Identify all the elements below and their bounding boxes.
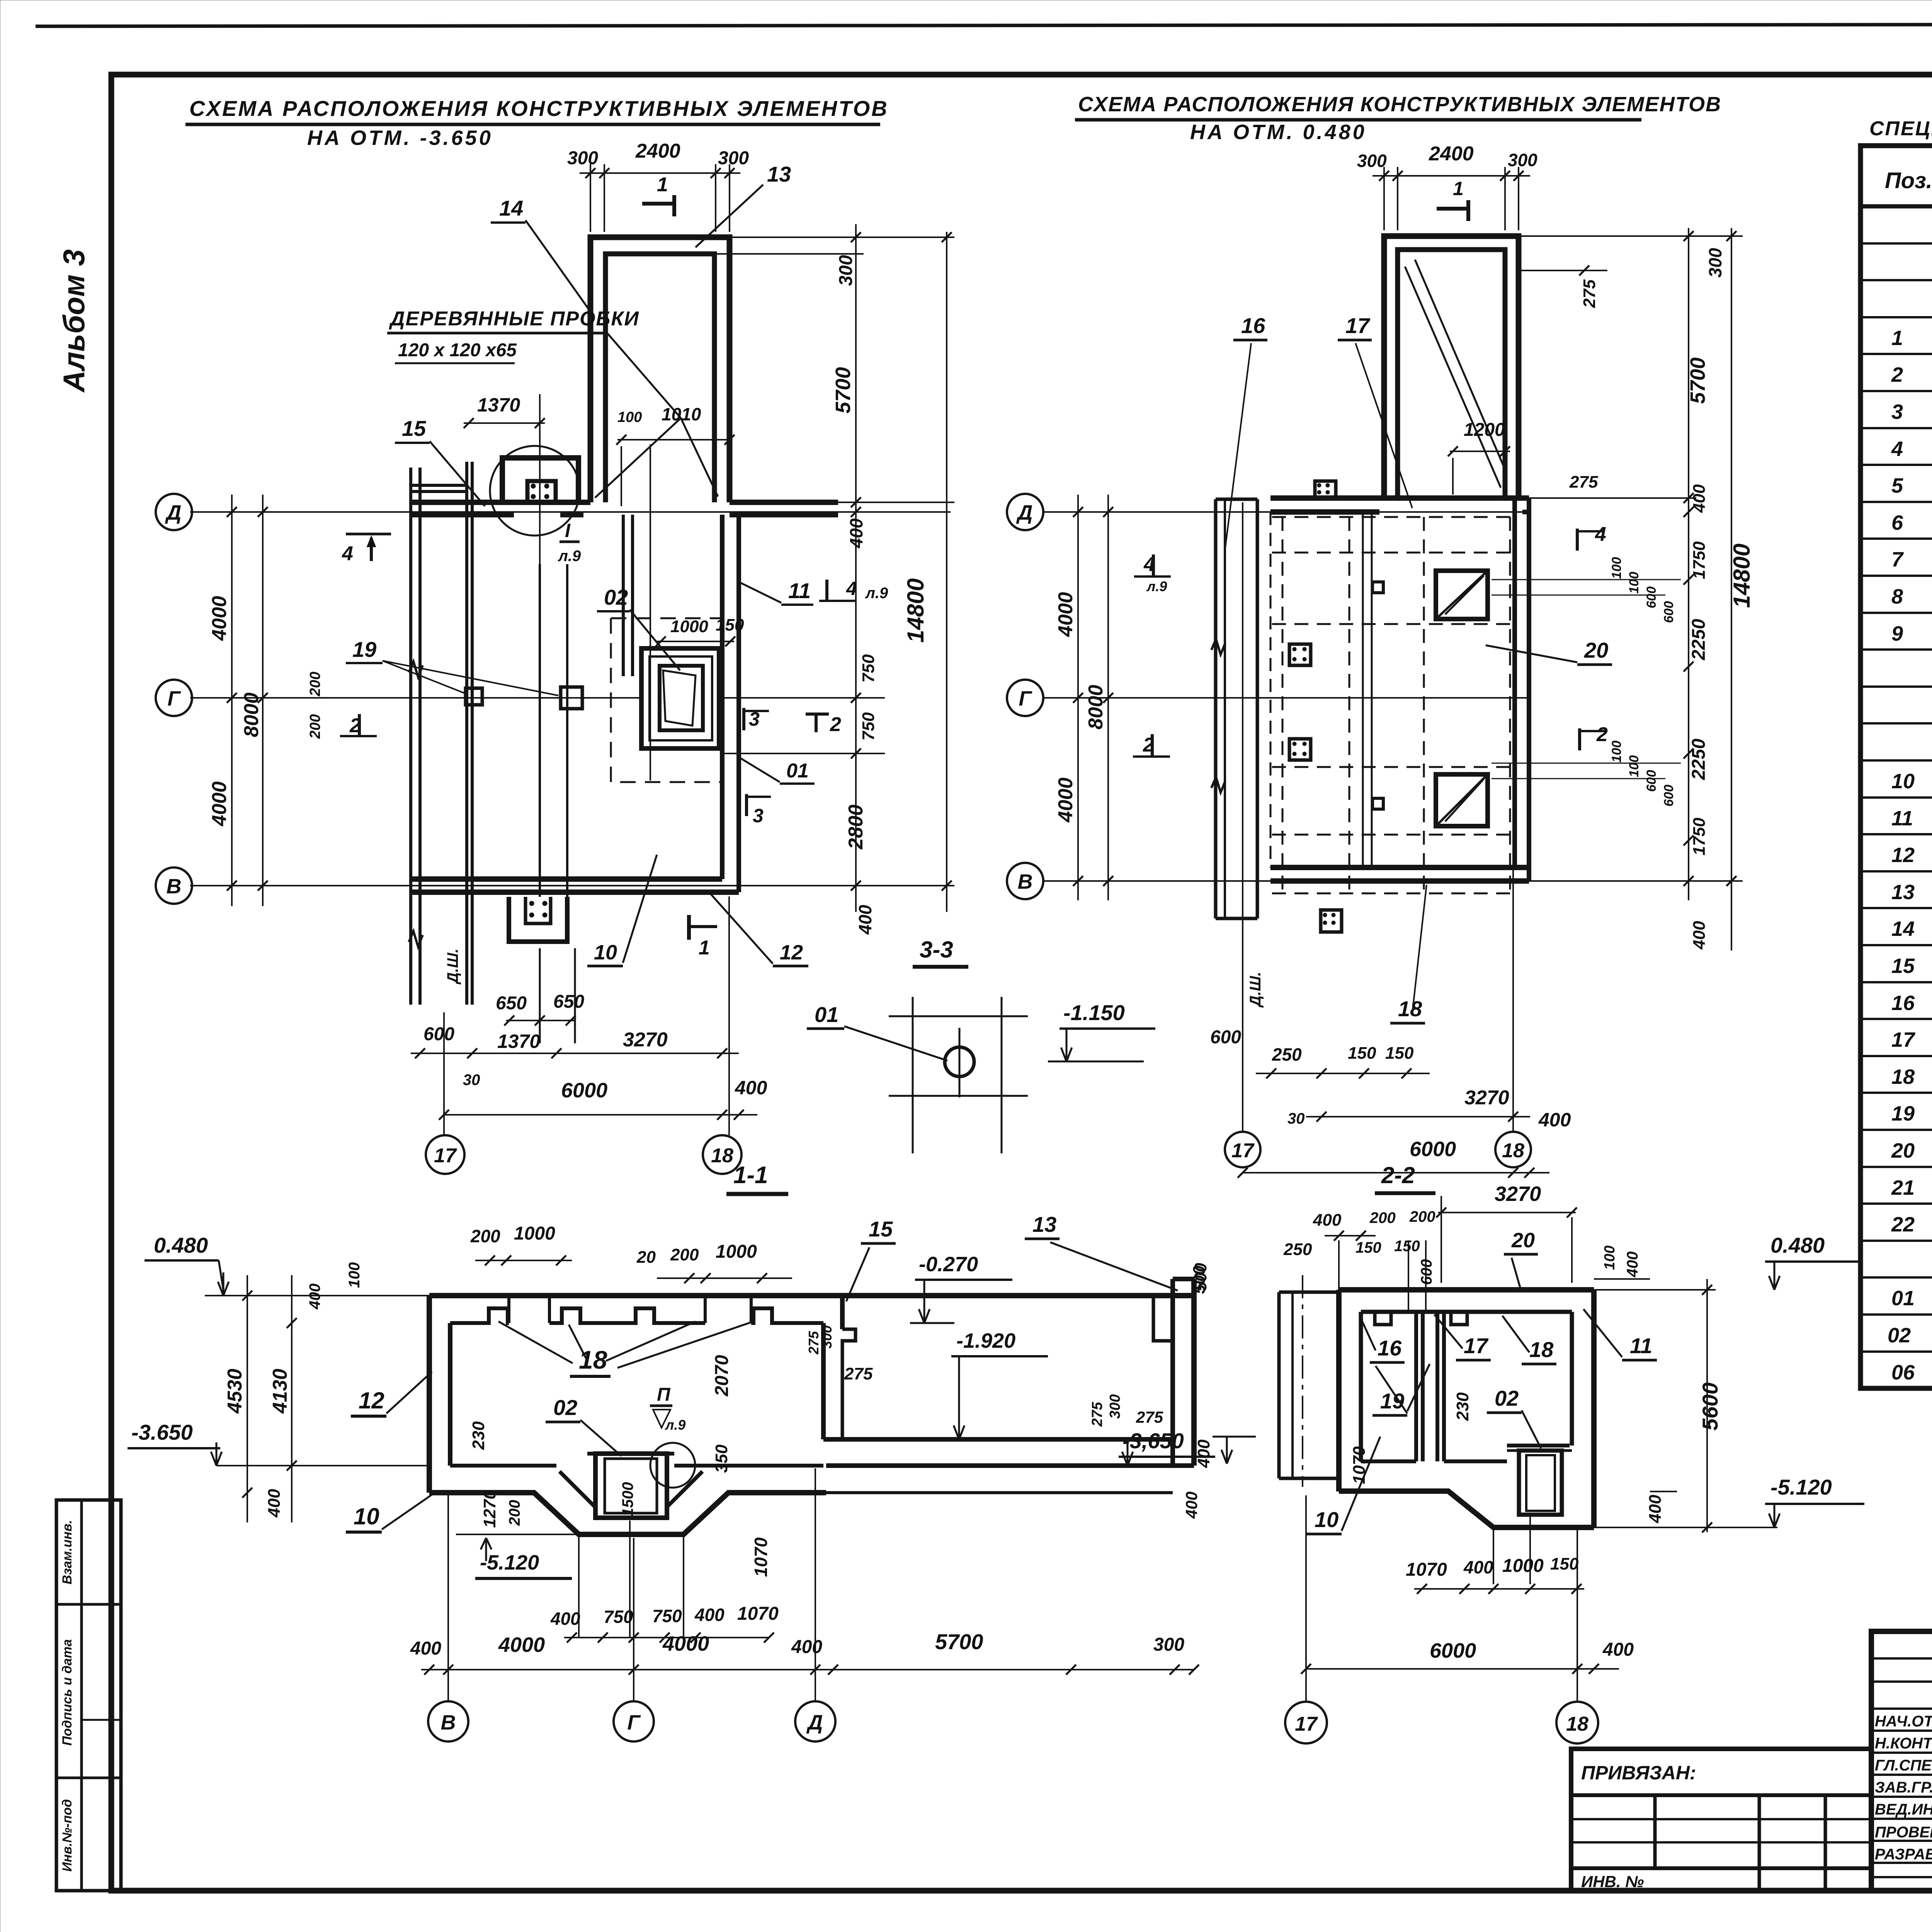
svg-text:150: 150	[1385, 1044, 1414, 1063]
svg-text:4000: 4000	[1054, 777, 1077, 823]
svg-text:17: 17	[1891, 1028, 1916, 1051]
svg-text:СХЕМА РАСПОЛОЖЕНИЯ КОНСТРУКТИВ: СХЕМА РАСПОЛОЖЕНИЯ КОНСТРУКТИВНЫХ ЭЛЕМЕН…	[189, 96, 889, 121]
svg-text:3: 3	[753, 805, 764, 827]
svg-text:-3,650: -3,650	[1122, 1429, 1184, 1453]
svg-text:-3.650: -3.650	[131, 1420, 193, 1444]
slab openings	[1436, 571, 1488, 619]
svg-text:500: 500	[1190, 1265, 1209, 1294]
svg-text:1010: 1010	[662, 404, 701, 424]
right dim chain plan1	[855, 224, 857, 912]
left margin stamp column	[56, 1500, 121, 1891]
svg-text:Альбом 3: Альбом 3	[57, 249, 91, 393]
svg-text:19: 19	[1891, 1102, 1915, 1125]
svg-text:230: 230	[469, 1421, 488, 1450]
svg-text:8000: 8000	[1085, 685, 1107, 730]
svg-text:11: 11	[788, 578, 811, 603]
svg-text:12: 12	[780, 941, 803, 964]
svg-text:400: 400	[1602, 1639, 1634, 1660]
svg-text:06: 06	[1891, 1361, 1915, 1384]
section 1-1 top slab with notches	[429, 1293, 826, 1298]
svg-text:5700: 5700	[935, 1629, 983, 1654]
tower top dims plan2	[1383, 167, 1385, 230]
svg-text:4530: 4530	[224, 1369, 246, 1414]
left appendage section 2-2	[1277, 1292, 1281, 1478]
svg-text:15: 15	[402, 416, 426, 440]
svg-text:Взам.инв.: Взам.инв.	[60, 1520, 75, 1585]
svg-text:РАЗРАБ.: РАЗРАБ.	[1875, 1846, 1932, 1863]
svg-text:В: В	[441, 1711, 456, 1734]
svg-text:6000: 6000	[561, 1079, 607, 1102]
svg-text:18: 18	[1566, 1713, 1588, 1735]
svg-text:200: 200	[670, 1245, 699, 1264]
plan -3.650 tower top dimensions	[590, 164, 591, 232]
svg-text:10: 10	[1891, 770, 1915, 793]
axis B wall band	[411, 876, 722, 882]
svg-text:650: 650	[496, 993, 527, 1014]
svg-text:Г: Г	[1019, 687, 1032, 710]
dashed beams plan2	[1272, 516, 1514, 518]
svg-text:400: 400	[735, 1077, 767, 1099]
axes 17 18 of plan1	[443, 1012, 445, 1135]
sump	[595, 1454, 667, 1518]
svg-text:18: 18	[579, 1345, 607, 1374]
svg-text:275: 275	[1580, 279, 1599, 308]
svg-text:350: 350	[712, 1444, 731, 1473]
right corridor floor	[823, 1437, 1173, 1442]
svg-text:1-1: 1-1	[733, 1162, 768, 1189]
svg-text:18: 18	[711, 1145, 733, 1167]
svg-text:19: 19	[352, 637, 376, 662]
svg-text:12: 12	[359, 1388, 384, 1413]
svg-text:5: 5	[1891, 474, 1903, 497]
svg-text:22: 22	[1891, 1213, 1915, 1236]
svg-text:01: 01	[786, 760, 809, 782]
svg-text:ВЕД.ИНН: ВЕД.ИНН	[1875, 1801, 1932, 1818]
svg-text:1750: 1750	[1690, 541, 1709, 579]
svg-text:Д: Д	[165, 501, 182, 524]
svg-text:100: 100	[1609, 557, 1624, 579]
svg-text:3270: 3270	[1464, 1087, 1509, 1109]
svg-text:ПРИВЯЗАН:: ПРИВЯЗАН:	[1581, 1762, 1696, 1784]
right wall 12	[720, 515, 724, 879]
svg-text:100: 100	[1602, 1245, 1618, 1270]
svg-text:02: 02	[553, 1395, 577, 1420]
svg-text:-5.120: -5.120	[480, 1551, 539, 1574]
svg-text:1370: 1370	[497, 1031, 540, 1052]
svg-text:Н.КОНТР: Н.КОНТР	[1875, 1735, 1932, 1752]
svg-text:100: 100	[346, 1262, 363, 1288]
svg-text:17: 17	[434, 1145, 457, 1167]
column squares plan2	[1289, 644, 1311, 665]
plan 0.480 tower	[1384, 236, 1519, 498]
left dim chains plan1	[231, 495, 233, 906]
axes plan2	[1043, 511, 1530, 513]
svg-text:0.480: 0.480	[154, 1233, 208, 1257]
svg-text:02: 02	[1888, 1324, 1911, 1347]
svg-text:16: 16	[1378, 1336, 1402, 1360]
pit 02 frames	[641, 648, 719, 748]
section 1-1 left wall	[427, 1296, 432, 1493]
svg-text:I: I	[565, 520, 571, 541]
svg-text:4: 4	[1891, 437, 1903, 461]
svg-text:4000: 4000	[498, 1633, 545, 1656]
title block outer	[1871, 1631, 1932, 1891]
svg-text:300: 300	[1357, 151, 1387, 171]
svg-text:100: 100	[1609, 741, 1624, 763]
projection lines down	[578, 1536, 580, 1638]
svg-text:300: 300	[567, 148, 598, 168]
svg-text:13: 13	[1891, 881, 1915, 904]
axis circles section 1-1	[428, 1701, 468, 1742]
signature rows	[1871, 1657, 1932, 1660]
svg-text:В: В	[167, 875, 182, 898]
axis lines plan1	[190, 511, 951, 513]
svg-text:600: 600	[423, 1024, 454, 1044]
axis verticals section 1-1	[447, 1495, 449, 1701]
svg-text:400: 400	[1182, 1492, 1201, 1519]
svg-text:275: 275	[1136, 1408, 1163, 1426]
svg-text:200: 200	[1369, 1209, 1396, 1226]
svg-text:600: 600	[1418, 1259, 1435, 1285]
svg-text:Поз.: Поз.	[1885, 168, 1932, 193]
svg-text:600: 600	[1662, 601, 1676, 623]
beam notches section 2-2	[1375, 1312, 1391, 1325]
svg-text:-0.270: -0.270	[919, 1253, 978, 1276]
svg-text:400: 400	[1646, 1495, 1665, 1524]
svg-text:2400: 2400	[635, 140, 680, 162]
svg-text:9: 9	[1891, 622, 1903, 645]
svg-text:400: 400	[1690, 484, 1709, 513]
section 2-2 outline	[1339, 1287, 1594, 1293]
svg-text:18: 18	[1891, 1065, 1915, 1088]
svg-text:2: 2	[830, 713, 841, 736]
specification table grid	[1861, 146, 1932, 1388]
break marks plan1	[409, 662, 423, 677]
svg-text:Д.Ш.: Д.Ш.	[444, 949, 461, 985]
interior walls section 2-2	[1414, 1312, 1418, 1461]
svg-text:400: 400	[1313, 1211, 1342, 1230]
svg-text:01: 01	[1891, 1287, 1915, 1310]
svg-text:14800: 14800	[1729, 544, 1755, 608]
svg-text:150: 150	[716, 616, 744, 634]
svg-text:5700: 5700	[832, 367, 855, 413]
left double walls	[409, 468, 412, 1005]
svg-text:14800: 14800	[903, 578, 929, 643]
svg-text:П: П	[657, 1384, 671, 1405]
svg-text:-1.920: -1.920	[956, 1329, 1015, 1352]
svg-text:5700: 5700	[1686, 357, 1709, 404]
plan2 walls	[1270, 495, 1529, 501]
svg-text:21: 21	[1891, 1176, 1915, 1199]
svg-text:1070: 1070	[1350, 1446, 1369, 1484]
section 1-1 tank bottom with pit	[429, 1493, 826, 1534]
svg-text:8: 8	[1891, 585, 1903, 608]
svg-text:Д.Ш.: Д.Ш.	[1247, 972, 1264, 1008]
svg-text:0.480: 0.480	[1770, 1233, 1825, 1257]
svg-text:1000: 1000	[716, 1242, 757, 1262]
axis circles section 2-2	[1285, 1702, 1327, 1743]
projection verticals section 2-2	[1305, 1495, 1307, 1701]
svg-text:400: 400	[265, 1489, 284, 1518]
svg-text:1: 1	[699, 937, 710, 959]
svg-text:02: 02	[604, 585, 628, 609]
svg-text:1070: 1070	[1406, 1560, 1447, 1580]
svg-text:1200: 1200	[1464, 420, 1505, 440]
svg-text:1270: 1270	[480, 1490, 499, 1528]
left level mark section 2-2	[1213, 1436, 1256, 1438]
svg-text:400: 400	[855, 905, 875, 935]
svg-text:ГЛ.СПЕЦ.: ГЛ.СПЕЦ.	[1875, 1757, 1932, 1774]
svg-text:275: 275	[844, 1364, 873, 1383]
svg-text:300: 300	[1153, 1634, 1184, 1655]
svg-text:100: 100	[617, 409, 642, 425]
wooden plugs leaders	[606, 332, 681, 418]
svg-text:3-3: 3-3	[920, 937, 953, 963]
plan -3.650 tower walls	[590, 237, 730, 502]
axes 17 18 plan2	[1242, 502, 1243, 1131]
svg-text:750: 750	[604, 1607, 633, 1627]
svg-text:120 х 120 х65: 120 х 120 х65	[398, 340, 517, 361]
wall 15 and right corridor	[821, 1323, 826, 1439]
svg-text:200: 200	[506, 1500, 523, 1526]
svg-text:18: 18	[1529, 1337, 1554, 1362]
small square columns	[561, 687, 582, 709]
svg-text:ДЕРЕВЯННЫЕ ПРОБКИ: ДЕРЕВЯННЫЕ ПРОБКИ	[389, 308, 639, 330]
svg-text:2070: 2070	[712, 1355, 732, 1396]
svg-text:л.9: л.9	[665, 1417, 685, 1433]
svg-text:3270: 3270	[623, 1029, 668, 1051]
svg-text:20: 20	[1511, 1229, 1535, 1252]
svg-text:20: 20	[636, 1248, 656, 1267]
right dim chain plan2	[1688, 228, 1689, 900]
svg-text:НА ОТМ. 0.480: НА ОТМ. 0.480	[1190, 121, 1367, 144]
svg-text:15: 15	[869, 1217, 893, 1241]
svg-text:200: 200	[1409, 1208, 1435, 1225]
svg-text:ПРОВЕР.: ПРОВЕР.	[1875, 1824, 1932, 1841]
svg-text:2250: 2250	[1689, 738, 1709, 780]
svg-text:600: 600	[1210, 1027, 1241, 1048]
svg-text:7: 7	[1891, 548, 1904, 571]
svg-text:14: 14	[499, 196, 523, 220]
svg-text:5600: 5600	[1698, 1383, 1722, 1431]
svg-text:2: 2	[1596, 723, 1608, 746]
svg-text:6: 6	[1891, 511, 1903, 534]
svg-text:1000: 1000	[514, 1223, 555, 1244]
svg-text:1: 1	[657, 173, 668, 196]
svg-text:750: 750	[859, 712, 878, 741]
svg-text:СХЕМА РАСПОЛОЖЕНИЯ КОНСТРУКТИВ: СХЕМА РАСПОЛОЖЕНИЯ КОНСТРУКТИВНЫХ ЭЛЕМЕН…	[1078, 93, 1721, 116]
svg-text:600: 600	[1644, 770, 1659, 792]
svg-text:НАЧ.ОТД.: НАЧ.ОТД.	[1875, 1713, 1932, 1730]
svg-text:1: 1	[1891, 327, 1903, 350]
svg-text:4: 4	[342, 543, 353, 565]
paper top edge line	[36, 24, 1932, 26]
svg-text:275: 275	[1089, 1401, 1105, 1427]
svg-text:2-2: 2-2	[1381, 1162, 1415, 1188]
svg-text:30: 30	[1287, 1110, 1305, 1127]
floor section 2-2	[1361, 1459, 1416, 1463]
svg-text:4130: 4130	[269, 1369, 291, 1414]
svg-text:400: 400	[550, 1609, 580, 1629]
svg-text:1070: 1070	[751, 1537, 771, 1577]
axis Д wall band	[411, 500, 590, 505]
svg-text:В: В	[1018, 870, 1033, 893]
svg-text:400: 400	[1624, 1252, 1641, 1278]
svg-text:2800: 2800	[845, 804, 867, 850]
svg-text:750: 750	[652, 1606, 682, 1626]
svg-text:16: 16	[1891, 992, 1915, 1015]
svg-text:Подпись и дата: Подпись и дата	[60, 1639, 75, 1746]
svg-text:-1.150: -1.150	[1063, 1000, 1125, 1025]
svg-text:л.9: л.9	[865, 585, 888, 602]
detail circle I	[490, 446, 580, 536]
svg-text:400: 400	[1538, 1109, 1571, 1131]
svg-text:2: 2	[1891, 363, 1903, 386]
svg-text:СПЕЦИФИКАЦИЯ К СХЕМЕ: СПЕЦИФИКАЦИЯ К СХЕМЕ	[1869, 117, 1932, 140]
svg-text:1070: 1070	[737, 1604, 779, 1624]
svg-text:02: 02	[1495, 1386, 1519, 1410]
svg-text:30: 30	[463, 1071, 480, 1088]
svg-text:150: 150	[1394, 1238, 1420, 1255]
svg-text:150: 150	[1348, 1044, 1376, 1063]
svg-text:10: 10	[354, 1503, 379, 1529]
svg-text:01: 01	[815, 1002, 838, 1027]
svg-text:17: 17	[1464, 1333, 1489, 1358]
break marks plan2	[1211, 639, 1225, 655]
svg-text:150: 150	[1550, 1554, 1579, 1573]
svg-text:275: 275	[1569, 473, 1598, 492]
svg-text:400: 400	[791, 1637, 822, 1657]
svg-text:3270: 3270	[1495, 1182, 1541, 1206]
svg-text:8000: 8000	[240, 692, 263, 737]
svg-text:1000: 1000	[670, 617, 708, 636]
svg-text:400: 400	[410, 1638, 441, 1659]
svg-text:400: 400	[846, 518, 866, 548]
svg-text:НА ОТМ. -3.650: НА ОТМ. -3.650	[307, 126, 493, 150]
svg-text:4000: 4000	[208, 781, 231, 827]
svg-text:ИНВ. №: ИНВ. №	[1581, 1872, 1644, 1891]
svg-text:20: 20	[1891, 1139, 1915, 1162]
svg-text:Г: Г	[627, 1711, 641, 1734]
svg-text:4000: 4000	[208, 596, 231, 641]
plan2 left dims	[1077, 495, 1079, 900]
svg-text:1000: 1000	[1502, 1556, 1544, 1576]
svg-text:300: 300	[1705, 248, 1725, 277]
svg-text:12: 12	[1891, 844, 1915, 867]
edge plugs plan2	[1315, 481, 1336, 499]
svg-text:4: 4	[1595, 523, 1606, 546]
svg-text:-5.120: -5.120	[1770, 1475, 1832, 1499]
svg-text:250: 250	[1272, 1044, 1302, 1065]
svg-text:250: 250	[1283, 1240, 1312, 1259]
dashed slab outline	[611, 618, 720, 782]
svg-text:15: 15	[1891, 954, 1915, 978]
svg-text:6000: 6000	[1410, 1138, 1456, 1161]
svg-text:Инв.№-под: Инв.№-под	[60, 1799, 75, 1872]
svg-text:600: 600	[1644, 587, 1659, 609]
svg-text:300: 300	[836, 255, 856, 286]
inner partition verticals	[539, 564, 541, 897]
svg-text:400: 400	[1690, 921, 1709, 950]
svg-text:10: 10	[1315, 1507, 1338, 1532]
svg-text:13: 13	[767, 162, 791, 186]
svg-text:16: 16	[1241, 313, 1265, 338]
svg-text:Г: Г	[167, 687, 181, 710]
svg-text:17: 17	[1295, 1713, 1318, 1735]
svg-text:10: 10	[594, 941, 617, 964]
svg-text:400: 400	[306, 1284, 323, 1310]
svg-text:4000: 4000	[1054, 592, 1077, 637]
svg-text:Д: Д	[1016, 501, 1033, 524]
plan2 left appendage	[1214, 499, 1218, 918]
stairs in tower	[1405, 267, 1501, 488]
svg-text:300: 300	[1107, 1394, 1123, 1418]
svg-text:17: 17	[1231, 1139, 1255, 1162]
svg-text:20: 20	[1584, 638, 1608, 662]
svg-text:300: 300	[1508, 150, 1537, 170]
svg-text:2250: 2250	[1689, 619, 1709, 660]
right dim vertical 5600	[1706, 1279, 1708, 1532]
svg-text:17: 17	[1345, 313, 1371, 338]
svg-text:1: 1	[1453, 178, 1464, 199]
binding box	[1571, 1749, 1871, 1891]
svg-text:200: 200	[307, 714, 323, 739]
svg-text:200: 200	[470, 1226, 500, 1246]
svg-text:650: 650	[553, 992, 584, 1012]
svg-text:400: 400	[1194, 1439, 1213, 1468]
svg-text:л.9: л.9	[1146, 578, 1167, 594]
svg-text:18: 18	[1398, 997, 1422, 1021]
svg-text:150: 150	[1355, 1239, 1381, 1256]
svg-text:600: 600	[1662, 785, 1676, 807]
svg-text:11: 11	[1891, 807, 1913, 830]
svg-text:3: 3	[1891, 400, 1903, 423]
extension line 300 top right	[714, 253, 864, 255]
svg-text:2400: 2400	[1429, 143, 1474, 165]
svg-text:14: 14	[1891, 917, 1915, 940]
svg-text:6000: 6000	[1430, 1639, 1476, 1662]
wall below tower left	[622, 515, 625, 676]
right end wall 13	[1153, 1296, 1173, 1439]
svg-text:400: 400	[694, 1605, 724, 1625]
right wall section 2-2	[1570, 1312, 1574, 1446]
svg-text:4000: 4000	[662, 1632, 709, 1655]
dashed left slab edge	[1270, 512, 1272, 867]
svg-text:1750: 1750	[1690, 818, 1709, 855]
sump section 2-2	[1519, 1451, 1562, 1515]
outdoor pit with plugs	[509, 897, 567, 942]
svg-text:200: 200	[307, 672, 323, 696]
svg-text:ЗАВ.ГР.: ЗАВ.ГР.	[1875, 1779, 1932, 1796]
svg-text:Д: Д	[806, 1711, 823, 1734]
svg-text:100: 100	[1627, 755, 1641, 777]
left dim verticals	[247, 1275, 248, 1522]
svg-text:230: 230	[1453, 1392, 1472, 1421]
svg-text:750: 750	[859, 654, 878, 683]
svg-text:1370: 1370	[477, 394, 520, 416]
svg-text:400: 400	[1463, 1557, 1493, 1577]
svg-text:275: 275	[806, 1331, 821, 1355]
svg-text:300: 300	[718, 148, 749, 168]
svg-text:18: 18	[1502, 1139, 1524, 1162]
detail circle II	[650, 1443, 695, 1488]
svg-text:11: 11	[1630, 1333, 1652, 1358]
svg-text:100: 100	[1627, 572, 1641, 594]
svg-text:л.9: л.9	[558, 548, 581, 565]
svg-text:1500: 1500	[619, 1482, 636, 1517]
svg-text:13: 13	[1032, 1212, 1056, 1236]
axis circles plan1	[156, 494, 192, 530]
